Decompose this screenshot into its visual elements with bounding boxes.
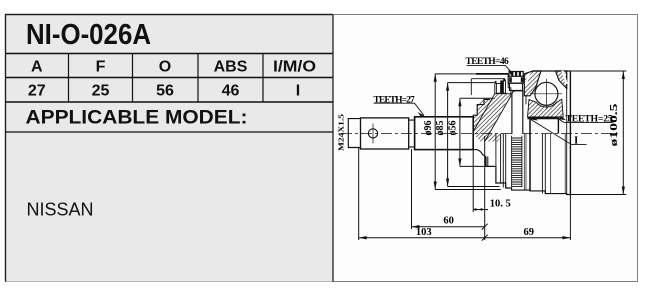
arrow phi100.5 top (622, 71, 625, 79)
dim line 10.5 (473, 209, 488, 211)
dia85 dim line (447, 83, 449, 187)
value row (28, 83, 300, 100)
dia96 dim line (434, 74, 436, 190)
svg-text:TEETH=46: TEETH=46 (466, 57, 509, 67)
cage white strip right (561, 71, 568, 85)
race lower block (557, 119, 559, 134)
leader TEETH=25 (559, 119, 613, 122)
arrows (359, 71, 625, 241)
svg-text:27: 27 (28, 83, 46, 100)
arrow 103 left (359, 236, 367, 239)
bell interface line R (485, 96, 511, 141)
svg-text:TEETH=25: TEETH=25 (566, 115, 613, 125)
bell mouth inner step (525, 96, 527, 104)
thread stub M24X1.5 (348, 119, 360, 148)
svg-text:M24X1.5: M24X1.5 (338, 113, 345, 151)
header row (31, 59, 316, 76)
phi100.5 ext top (570, 70, 627, 72)
spline/damper block (415, 117, 474, 150)
arrow phi100.5 bottom (622, 187, 625, 195)
svg-text:NI-O-026A: NI-O-026A (26, 19, 151, 51)
arrow dia85 top (446, 83, 449, 91)
svg-text:I: I (574, 134, 578, 146)
svg-text:A: A (31, 59, 43, 76)
arrow dia85 bottom (446, 179, 449, 187)
ext line 69 right (569, 195, 571, 241)
bottom envelope staircase (473, 150, 570, 195)
boot left face (470, 79, 472, 95)
spline comb block (512, 136, 522, 187)
tick 103/69 junction (482, 235, 488, 241)
groove pair mid (542, 134, 545, 194)
boot top edge (476, 73, 508, 75)
svg-text:ø100.5: ø100.5 (609, 104, 620, 147)
abs ring body (508, 76, 524, 83)
svg-text:ø56: ø56 (448, 121, 459, 136)
ext line shared 485 (484, 136, 486, 240)
abs ring teeth (509, 72, 523, 77)
race left edge lower (529, 119, 531, 191)
centerline (341, 133, 621, 135)
svg-text:APPLICABLE MODEL:: APPLICABLE MODEL: (26, 107, 248, 129)
arrow dia96 bottom (434, 182, 437, 190)
svg-text:46: 46 (222, 83, 240, 100)
ball (535, 82, 558, 105)
svg-text:103: 103 (416, 227, 432, 238)
dots 10.5 (474, 208, 476, 210)
svg-text:60: 60 (443, 216, 454, 227)
svg-text:I/M/O: I/M/O (273, 59, 316, 76)
boot upper line (471, 78, 505, 80)
dia56 dim line (459, 98, 461, 166)
hatch wedge right of ball (556, 71, 567, 89)
leader TEETH=27 (374, 103, 425, 115)
leader I (531, 120, 587, 145)
ball crosshair (530, 79, 562, 109)
arrow dia96 top (434, 74, 437, 82)
bottom grooves right of comb (524, 134, 565, 194)
svg-text:25: 25 (92, 83, 110, 100)
svg-text:NISSAN: NISSAN (27, 199, 94, 220)
housing inner face line (566, 74, 568, 194)
bell wall hatch wedge (524, 71, 541, 96)
phi100.5 ext bottom (566, 194, 626, 196)
table panel (5, 15, 333, 282)
ext line 103 left (358, 148, 360, 240)
housing right face (569, 71, 571, 195)
tick 60 right (482, 224, 488, 230)
cage white strip left (525, 71, 532, 85)
arrow dia56 bottom (458, 158, 461, 166)
ext line 60 left (411, 149, 413, 229)
neck step (409, 117, 415, 150)
svg-text:F: F (96, 59, 106, 76)
bell inner bore column (512, 91, 523, 134)
dia85 ext top (448, 82, 495, 84)
hole crosshair (372, 124, 374, 144)
svg-text:ø85: ø85 (435, 121, 446, 136)
ext line 10.5 left (472, 150, 474, 212)
dia96 ext top (435, 73, 476, 75)
arrow 60 left (412, 225, 420, 228)
arrow 69 right (562, 236, 570, 239)
bottom groove pair short (487, 157, 488, 167)
shaft hole circle (368, 129, 377, 138)
bottom groove pair 3 (496, 134, 506, 188)
boot-bell hatch zone (473, 94, 511, 142)
svg-text:TEETH=27: TEETH=27 (374, 95, 415, 105)
leader TEETH=46 (467, 66, 513, 74)
svg-text:69: 69 (524, 227, 535, 238)
bell outer top (524, 71, 570, 74)
svg-text:O: O (159, 59, 171, 76)
boot-bell seam line L (474, 94, 495, 131)
svg-text:10. 5: 10. 5 (490, 198, 511, 209)
dia85 ext bottom (448, 186, 500, 188)
boot steps top (473, 99, 490, 116)
inner race hatched (528, 99, 564, 117)
arrow dia56 top (458, 98, 461, 106)
svg-text:I: I (296, 83, 300, 100)
dia56 ext bottom (460, 165, 494, 167)
phi100.5 dim line (622, 71, 624, 195)
svg-text:ø96: ø96 (423, 121, 434, 136)
dim line 103 69 (359, 237, 571, 239)
boot clamp cluster (495, 74, 511, 96)
svg-text:ABS: ABS (214, 59, 248, 76)
race bottom thick edge (528, 117, 560, 119)
svg-text:56: 56 (156, 83, 174, 100)
dia56 ext top (460, 97, 495, 99)
dim line 60 (412, 226, 485, 228)
abs ring seat (510, 83, 523, 90)
shaft body (361, 118, 409, 149)
dia96 ext bottom (435, 189, 501, 191)
